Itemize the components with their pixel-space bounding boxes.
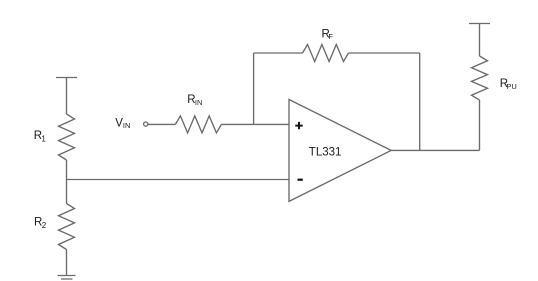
wire terminal to R1 [66,78,68,115]
svg-text:IN: IN [123,121,130,130]
wire RPU bottom leg [479,100,481,150]
ground [58,276,76,280]
wire VIN terminal to RIN [148,123,176,125]
node A wire to inverting input [67,179,290,181]
wire R1 to node A [66,160,68,180]
pin label - (inverting input) [298,179,303,181]
wire RPU to pull-up terminal [479,24,481,57]
feedback junction riser (node B up to RF) [253,53,255,124]
svg-text:2: 2 [42,221,47,230]
output riser (RF right leg down to output) [419,53,421,150]
resistor RIN [175,116,221,133]
input terminal VIN (open circle) [144,122,148,126]
supply terminal bar (top of divider) [56,77,77,79]
resistor R2 [59,204,75,250]
resistor RPU [472,56,488,100]
svg-text:TL331: TL331 [309,146,342,158]
wire node A to R2 [66,180,68,204]
wire RF to output riser [349,52,420,54]
resistor R1 [59,114,75,160]
svg-text:PU: PU [506,82,516,91]
wire RIN to non-inverting input [221,123,289,125]
pin label + (non-inverting input) [295,122,302,129]
svg-text:IN: IN [195,98,203,107]
resistor RF [303,45,349,62]
svg-text:1: 1 [41,135,46,144]
pull-up supply terminal bar [469,23,490,25]
wire riser to RF [254,52,303,54]
op-amp U1 (TL331 comparator triangle) [289,100,391,202]
svg-text:F: F [328,32,333,41]
wire R2 to ground [66,250,68,276]
output wire [391,149,479,151]
